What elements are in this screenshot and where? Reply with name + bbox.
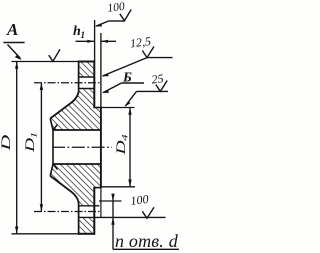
roughness 12,5: leader: [103, 58, 148, 76]
svg-text:D: D: [113, 140, 127, 156]
outline: hub taper lower with fillet: [50, 176, 78, 203]
svg-text:4: 4: [120, 134, 129, 141]
label Б underline: [122, 82, 145, 84]
outline: flange face lower: [93, 188, 95, 235]
centerline of bore: [52, 146, 112, 148]
label D4: [113, 134, 129, 156]
outline: flange face upper: [93, 61, 95, 108]
view arrow A underline: [3, 42, 24, 44]
dimension D arrows: [15, 62, 18, 69]
hole diameter dimension line: [112, 194, 114, 250]
svg-text:25: 25: [151, 71, 165, 86]
outline: disc left face lower: [78, 202, 80, 235]
bolt hole upper wall (bottom): [79, 205, 100, 207]
outline: disc left face upper: [78, 61, 80, 94]
hole diameter dimension arrows: [111, 194, 114, 201]
roughness checkmark on top face: [49, 49, 60, 61]
dimension D1 arrows: [40, 83, 43, 90]
flange disc lower section (hatched): [79, 217, 95, 233]
bore upper wall: [53, 129, 101, 131]
svg-text:А: А: [6, 20, 18, 39]
svg-text:100: 100: [107, 1, 126, 15]
view arrow A leader: [8, 45, 21, 59]
bolt hole lower wall (top): [79, 88, 95, 90]
bore lower wall: [53, 163, 101, 165]
underline for n otv. d: [113, 248, 179, 250]
bore chamfer edge lower: [53, 164, 58, 170]
roughness 100 top: shelf: [109, 20, 125, 22]
roughness 25: leader: [125, 91, 136, 106]
dimension D1 line: [40, 83, 42, 212]
h1 extension left (flange face): [94, 20, 96, 62]
svg-text:D: D: [0, 134, 13, 151]
roughness 12,5: checkmark: [142, 47, 154, 58]
outline: raised face step upper: [93, 107, 101, 109]
outline: hub end face: [52, 129, 54, 165]
hole diameter upper extension line: [99, 200, 122, 202]
label Б leader: [103, 83, 122, 93]
h1 dimension line left tail: [76, 40, 95, 42]
svg-text:D: D: [22, 138, 37, 153]
roughness 100 top: checkmark: [120, 10, 131, 21]
bolt hole lower wall (bottom) + roughness shelf: [79, 216, 166, 218]
D4 extension top: [101, 107, 135, 109]
extension line: bottom edge to left: [12, 233, 79, 235]
bore chamfer edge upper: [53, 125, 58, 131]
extension line: top edge to left: [12, 61, 79, 63]
svg-text:12,5: 12,5: [129, 34, 152, 50]
outline: top edge of disc: [79, 61, 95, 63]
svg-text:n отв. d: n отв. d: [115, 231, 179, 251]
flange mid-upper section with hub taper (hatched): [50, 89, 101, 131]
svg-text:1: 1: [81, 30, 86, 40]
bolt hole upper wall (top): [79, 76, 95, 78]
outline: hub taper upper with fillet: [50, 92, 78, 119]
dimension D line: [16, 62, 18, 234]
flange disc upper section (hatched): [79, 62, 95, 78]
h1 extension right (raised face): [100, 33, 102, 108]
outline: hub weld bevel lower: [50, 164, 53, 176]
bolt hole axis bottom / D1 extension: [34, 211, 100, 213]
flange mid-lower section with hub taper (hatched): [50, 164, 101, 206]
outline: raised face front: [100, 107, 102, 189]
roughness 100 top: leader: [96, 21, 109, 26]
dimension D4 line: [129, 108, 131, 187]
raised face front extension down: [100, 188, 102, 217]
roughness 100 bottom: checkmark: [142, 207, 154, 218]
svg-text:100: 100: [130, 192, 150, 208]
h1 arrows: [87, 40, 94, 43]
D4 extension bottom: [101, 186, 135, 188]
roughness 25: shelf: [137, 90, 169, 92]
roughness 25: checkmark: [156, 81, 167, 92]
roughness 12,5: shelf: [147, 57, 173, 59]
label D1: [22, 132, 38, 153]
outline: bottom edge of disc: [79, 233, 95, 235]
h1 dimension line right tail: [101, 40, 116, 42]
bolt hole axis top / D1 extension: [34, 82, 100, 84]
outline: raised face step lower: [93, 187, 101, 189]
svg-text:1: 1: [30, 132, 39, 138]
dimension D4 arrows: [128, 108, 131, 115]
outline: hub weld bevel upper: [50, 119, 53, 131]
